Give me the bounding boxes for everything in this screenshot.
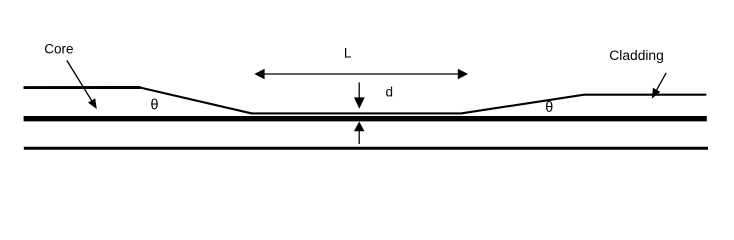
svg-text:θ: θ [151, 98, 159, 114]
svg-text:θ: θ [545, 100, 553, 116]
arrow from Core label to core [67, 60, 97, 109]
svg-text:Cladding: Cladding [609, 48, 664, 63]
core (thick center line) [24, 116, 707, 121]
svg-text:L: L [344, 46, 352, 61]
top cladding boundary (tapered polyline) [24, 86, 141, 89]
bottom cladding boundary [24, 147, 708, 150]
dimension arrow d top (down) [354, 82, 365, 108]
dimension arrow d bottom (up) [354, 122, 365, 145]
svg-text:d: d [386, 85, 394, 100]
dimension arrow L (double-headed) [254, 69, 468, 79]
arrow from Cladding label to cladding [652, 73, 666, 99]
svg-text:Core: Core [44, 41, 73, 56]
